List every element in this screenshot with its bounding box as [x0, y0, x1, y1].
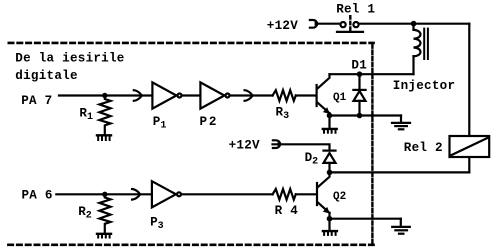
svg-text:Rel 1: Rel 1	[336, 3, 375, 17]
svg-text:digitale: digitale	[15, 69, 77, 83]
svg-text:+12V: +12V	[267, 19, 298, 33]
svg-text:De la iesirile: De la iesirile	[15, 51, 124, 65]
svg-text:P2: P2	[200, 115, 219, 129]
svg-text:R 4: R 4	[275, 204, 299, 218]
svg-text:+12V: +12V	[229, 139, 260, 153]
svg-text:D1: D1	[351, 59, 367, 73]
svg-text:PA 6: PA 6	[22, 189, 53, 203]
svg-text:Rel 2: Rel 2	[404, 141, 443, 155]
svg-text:Q2: Q2	[333, 191, 346, 203]
svg-text:Injector: Injector	[393, 79, 455, 93]
svg-text:Q1: Q1	[333, 92, 347, 104]
svg-text:PA 7: PA 7	[21, 94, 52, 108]
